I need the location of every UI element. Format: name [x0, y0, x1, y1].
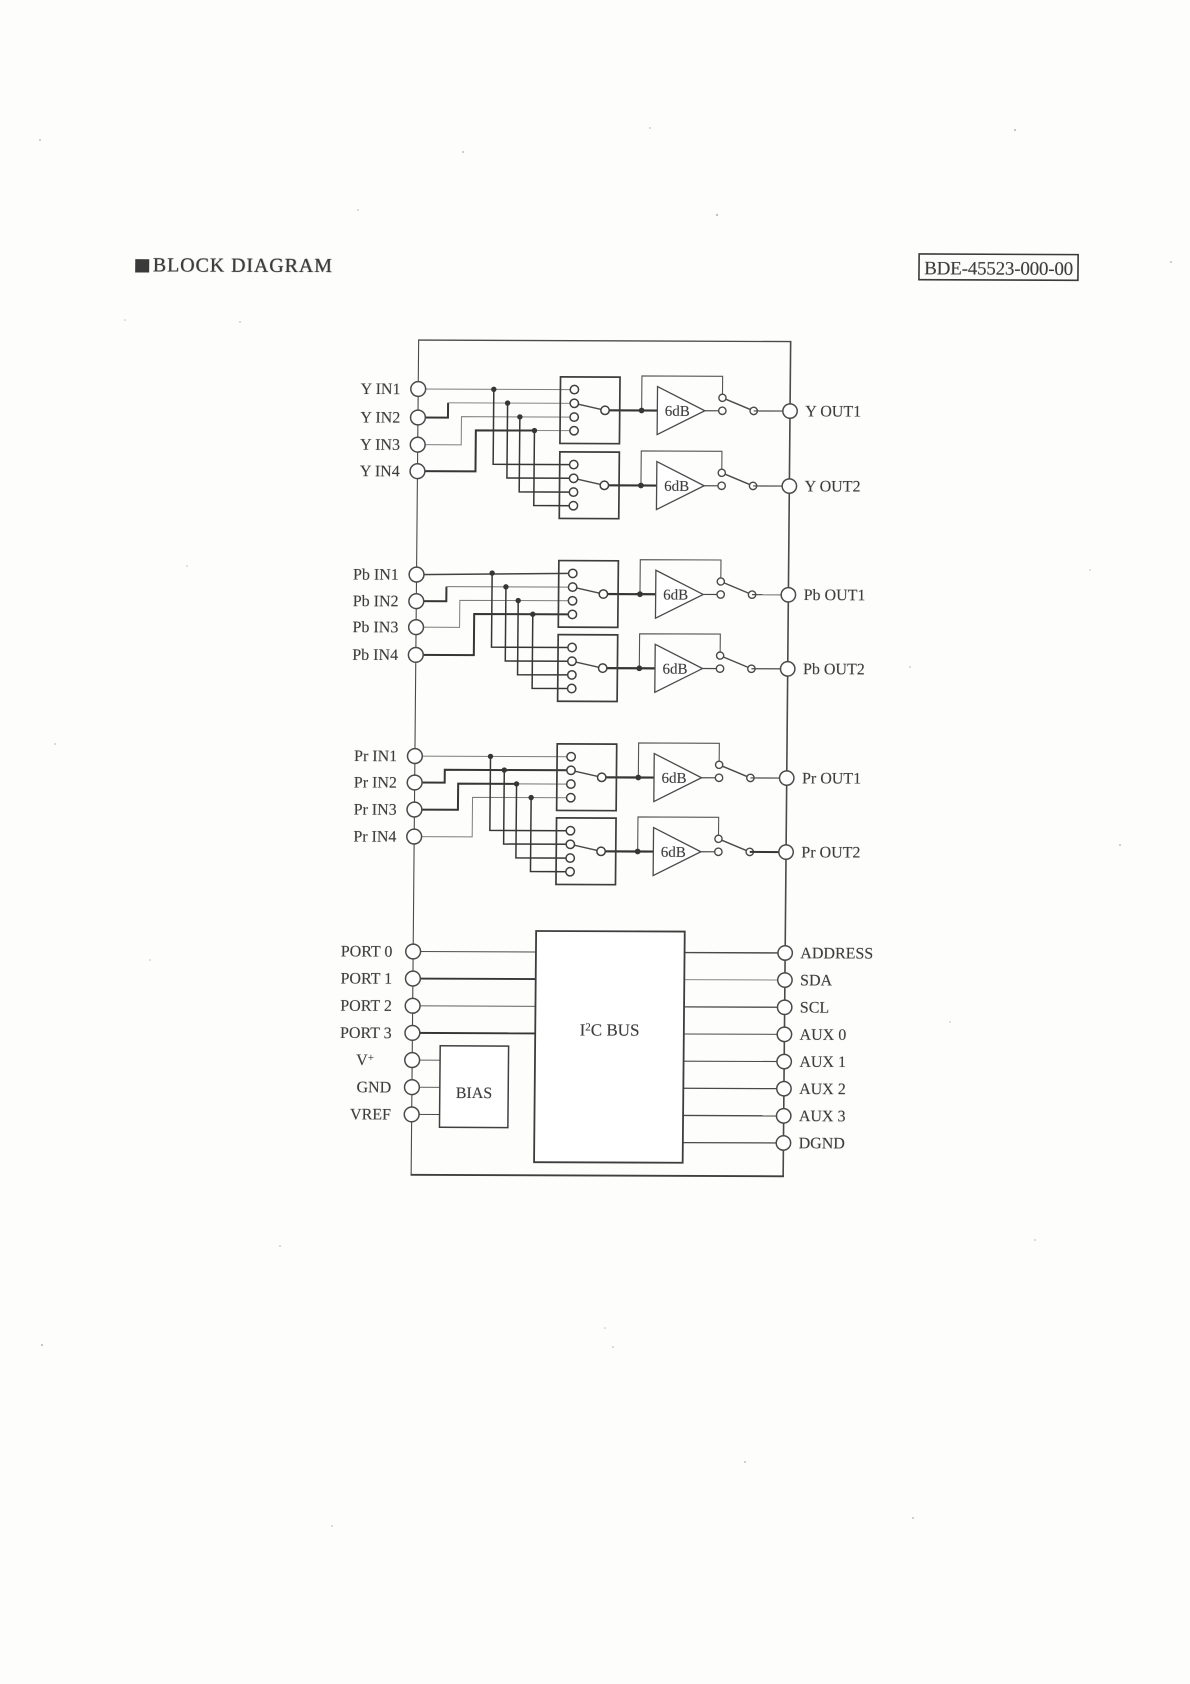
wire I2C BUS to AUX 1	[684, 1060, 785, 1062]
pin Y IN1	[411, 382, 426, 397]
svg-text:6dB: 6dB	[661, 771, 686, 787]
svg-text:PORT 1: PORT 1	[340, 970, 392, 987]
wire Pb IN1 to upper mux	[417, 573, 573, 575]
wire PORT 2 to I2C BUS	[413, 1005, 536, 1007]
wire mux2 Pr output to amp	[601, 850, 653, 852]
svg-text:6dB: 6dB	[662, 662, 687, 678]
svg-text:Pr OUT2: Pr OUT2	[801, 844, 860, 861]
wire Y IN2 to upper mux	[418, 403, 448, 418]
pin AUX 2	[777, 1081, 792, 1095]
svg-text:Pb IN2: Pb IN2	[353, 593, 399, 610]
IC boundary box top edge	[418, 340, 791, 341]
svg-text:SCL: SCL	[800, 1000, 829, 1017]
IC boundary box bottom edge	[411, 1175, 784, 1176]
wire mux1 Y output to amp	[605, 409, 657, 411]
wire Y ch2 amp output	[704, 485, 722, 487]
svg-text:Pr IN3: Pr IN3	[354, 802, 397, 819]
junction Pr ch2 amp input	[635, 849, 641, 855]
svg-text:AUX 2: AUX 2	[799, 1081, 846, 1098]
op-amp 6dB Pr ch2	[653, 828, 701, 876]
wire Y IN4 branch to lower mux	[534, 431, 574, 506]
pin Y IN4	[410, 464, 425, 479]
pin SDA	[778, 973, 793, 987]
wire to Pr OUT1 pin	[750, 777, 786, 779]
svg-text:AUX 1: AUX 1	[799, 1054, 846, 1071]
junction Y IN2	[505, 400, 510, 405]
wire Pb ch2 amp output	[703, 668, 721, 670]
pin Pr IN1	[407, 749, 422, 764]
wire Pr IN1 branch to lower mux	[490, 756, 571, 830]
wire Pb IN1 branch to lower mux	[491, 573, 572, 647]
wire PORT 3 to I2C BUS	[412, 1032, 535, 1034]
switch Pr ch1 output select	[715, 761, 754, 781]
wire Pr IN2 to upper mux	[415, 770, 571, 783]
pin Pr IN4	[407, 829, 422, 844]
svg-text:Pr IN1: Pr IN1	[354, 748, 397, 765]
junction Pb IN2	[503, 584, 508, 589]
pin Pb OUT1	[781, 588, 796, 602]
wire Pb ch1 bypass path	[640, 560, 721, 595]
wire Y IN1 to upper mux	[418, 388, 574, 391]
wire to Pr OUT2 pin	[750, 851, 786, 853]
junction Pr IN4	[528, 795, 533, 800]
op-amp 6dB Y ch2	[656, 462, 704, 510]
wire Pr ch2 amp output	[701, 851, 719, 853]
wire Y ch1 amp output	[705, 410, 723, 412]
wire I2C BUS to AUX 0	[684, 1033, 785, 1035]
junction Y IN3	[517, 414, 522, 419]
svg-text:BIAS: BIAS	[456, 1085, 493, 1102]
pin AUX 0	[777, 1027, 792, 1041]
svg-text:PORT 3: PORT 3	[340, 1025, 392, 1042]
document number box BDE-45523-000-00	[919, 254, 1078, 280]
op-amp 6dB Pr ch1	[654, 754, 702, 802]
wire PORT 0 to I2C BUS	[413, 950, 536, 952]
svg-text:SDA: SDA	[800, 972, 833, 989]
op-amp 6dB Pb ch1	[655, 570, 703, 618]
wire Pr ch2 bypass path	[638, 817, 719, 852]
wire Y IN2 branch to lower mux	[507, 403, 574, 478]
IC boundary box left edge	[411, 340, 419, 1175]
pin PORT 2	[405, 998, 420, 1013]
mux Pb1 selector box	[558, 561, 618, 628]
wire V+ to BIAS	[412, 1059, 440, 1061]
wire Pr ch1 amp output	[702, 777, 720, 779]
pin PORT 0	[406, 944, 421, 959]
junction Pb ch1 amp input	[637, 591, 643, 597]
pin V+	[405, 1053, 420, 1068]
pin Pr IN3	[407, 802, 422, 817]
svg-text:ADDRESS: ADDRESS	[800, 945, 873, 962]
svg-text:Pr IN4: Pr IN4	[353, 829, 396, 846]
wire Pr IN3 branch to lower mux	[516, 784, 571, 858]
pin Pb IN1	[409, 567, 424, 582]
op-amp 6dB Y ch1	[657, 387, 705, 435]
svg-text:Y OUT2: Y OUT2	[805, 478, 861, 495]
wire Pb IN2 branch to lower mux	[505, 587, 572, 661]
svg-text:Y IN1: Y IN1	[361, 381, 401, 398]
pin Y IN3	[410, 437, 425, 452]
pin Pr OUT1	[779, 771, 794, 785]
switch Pb ch2 output select	[716, 652, 755, 672]
wire Pr IN4 branch to lower mux	[530, 798, 570, 872]
pin Pr IN2	[407, 775, 422, 790]
wire VREF to BIAS	[412, 1113, 440, 1115]
svg-text:PORT 0: PORT 0	[341, 943, 393, 960]
pin Y IN2	[410, 410, 425, 425]
wire I2C BUS to SDA	[684, 979, 785, 981]
switch Y ch1 output select	[719, 394, 758, 414]
wire I2C BUS to AUX 2	[683, 1087, 784, 1089]
junction Pr IN3	[514, 781, 519, 786]
wire Y IN4 to upper mux	[417, 430, 534, 472]
junction Pb IN3	[515, 598, 520, 603]
pin SCL	[777, 1000, 792, 1014]
wire to Pb OUT1 pin	[752, 594, 788, 596]
wire Y IN1 branch to lower mux	[493, 389, 574, 464]
mux Y1 selector box	[560, 377, 620, 444]
wire mux2 Pb output to amp	[603, 667, 655, 669]
svg-text:6dB: 6dB	[663, 587, 688, 603]
junction Y ch1 amp input	[639, 408, 645, 414]
I2C BUS block	[534, 931, 685, 1163]
wire Pb IN2 to upper mux	[416, 586, 446, 601]
wire Y ch1 bypass path	[642, 376, 723, 411]
pin Pb IN4	[408, 647, 423, 662]
pin AUX 1	[777, 1054, 792, 1068]
svg-text:Y OUT1: Y OUT1	[805, 403, 861, 420]
wire GND to BIAS	[412, 1086, 440, 1088]
switch Pb ch1 output select	[717, 578, 756, 598]
pin ADDRESS	[778, 946, 793, 960]
wire to Y OUT1 pin	[754, 410, 790, 412]
wire PORT 1 to I2C BUS	[413, 978, 536, 980]
svg-text:Y IN4: Y IN4	[360, 463, 400, 480]
wire I2C BUS to DGND	[683, 1142, 784, 1144]
junction Pb ch2 amp input	[636, 665, 642, 671]
svg-text:Pb OUT1: Pb OUT1	[804, 587, 866, 604]
mux Y2 selector box	[559, 452, 619, 519]
pin VREF	[404, 1107, 419, 1122]
junction Pb IN1	[489, 570, 494, 575]
junction Pb IN4	[530, 612, 535, 617]
wire to Pb OUT2 pin	[751, 668, 787, 670]
wire I2C BUS to ADDRESS	[685, 952, 786, 954]
pin DGND	[776, 1136, 791, 1150]
svg-text:DGND: DGND	[799, 1135, 845, 1152]
svg-text:6dB: 6dB	[661, 845, 686, 861]
pin Pb IN2	[409, 594, 424, 609]
pin Pb IN3	[409, 620, 424, 635]
wire Pb IN3 branch to lower mux	[518, 601, 573, 675]
svg-text:BLOCK DIAGRAM: BLOCK DIAGRAM	[153, 254, 333, 277]
wire Pr IN3 to upper mux	[414, 783, 516, 810]
svg-text:BDE-45523-000-00: BDE-45523-000-00	[924, 258, 1073, 280]
wire Pr IN2 branch to lower mux	[504, 770, 571, 844]
pin PORT 1	[405, 971, 420, 986]
switch Pr ch2 output select	[715, 835, 754, 855]
svg-text:VREF: VREF	[350, 1106, 391, 1123]
junction Pr IN2	[502, 767, 507, 772]
pin GND	[404, 1080, 419, 1095]
junction Pr IN1	[488, 754, 493, 759]
wire Y IN3 to upper mux	[418, 416, 574, 445]
mux Pr2 selector box	[556, 818, 616, 885]
pin Y OUT2	[782, 479, 797, 493]
mux Pr1 selector box	[557, 744, 617, 811]
svg-text:Pb IN4: Pb IN4	[352, 647, 398, 664]
junction Pr ch1 amp input	[635, 775, 641, 781]
svg-text:Pb IN1: Pb IN1	[353, 567, 399, 584]
junction Y IN1	[491, 387, 496, 392]
svg-text:GND: GND	[356, 1079, 391, 1096]
BIAS block	[439, 1046, 508, 1128]
wire Pb IN4 branch to lower mux	[532, 614, 572, 688]
junction Y IN4	[532, 428, 537, 433]
switch Y ch2 output select	[718, 469, 757, 489]
mux Pb2 selector box	[558, 635, 618, 702]
wire Pr IN1 to upper mux	[415, 755, 571, 758]
wire to Y OUT2 pin	[753, 485, 789, 487]
wire Y IN3 branch to lower mux	[519, 417, 574, 492]
svg-text:6dB: 6dB	[665, 404, 690, 420]
wire Pb IN4 to upper mux	[416, 614, 573, 656]
svg-text:Y IN2: Y IN2	[360, 409, 400, 426]
wire Y ch2 bypass path	[641, 451, 722, 486]
svg-text:Pb IN3: Pb IN3	[353, 619, 399, 636]
wire mux1 Pr output to amp	[602, 776, 654, 778]
svg-text:Pr OUT1: Pr OUT1	[802, 770, 861, 787]
wire mux1 Pb output to amp	[603, 593, 655, 595]
wire Pr IN4 to upper mux	[414, 797, 571, 837]
pin AUX 3	[776, 1109, 791, 1123]
svg-text:Pr IN2: Pr IN2	[354, 774, 397, 791]
wire Pb IN3 to upper mux	[416, 600, 572, 628]
pin Pr OUT2	[779, 845, 794, 859]
wire Pb ch1 amp output	[703, 593, 721, 595]
svg-text:Y IN3: Y IN3	[360, 437, 400, 454]
wire mux2 Y output to amp	[604, 484, 656, 486]
wire Pb ch2 bypass path	[639, 634, 720, 669]
svg-text:AUX 0: AUX 0	[800, 1027, 847, 1044]
pin PORT 3	[405, 1025, 420, 1040]
pin Pb OUT2	[780, 662, 795, 676]
svg-text:Pb OUT2: Pb OUT2	[803, 661, 865, 678]
wire I2C BUS to SCL	[684, 1006, 785, 1008]
wire I2C BUS to AUX 3	[683, 1114, 784, 1116]
svg-text:6dB: 6dB	[664, 479, 689, 495]
op-amp 6dB Pb ch2	[655, 644, 703, 692]
IC boundary box right edge	[783, 342, 791, 1177]
wire Pr ch1 bypass path	[638, 743, 719, 778]
svg-text:PORT 2: PORT 2	[340, 998, 392, 1015]
svg-text:AUX 3: AUX 3	[799, 1108, 846, 1125]
title block square	[135, 259, 149, 272]
junction Y ch2 amp input	[638, 483, 644, 489]
pin Y OUT1	[783, 404, 798, 418]
